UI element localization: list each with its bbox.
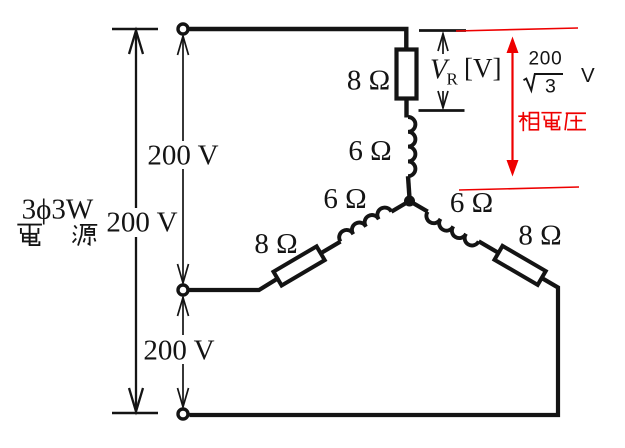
svg-text:200: 200 [528,49,562,70]
svg-text:R: R [447,70,459,89]
svg-text:200 V: 200 V [147,140,218,172]
svg-text:6 Ω: 6 Ω [323,183,366,215]
svg-text:8 Ω: 8 Ω [518,220,561,252]
svg-text:V: V [581,64,595,87]
svg-text:[V]: [V] [464,53,501,83]
svg-text:6 Ω: 6 Ω [348,135,391,167]
svg-text:6 Ω: 6 Ω [450,187,493,219]
svg-text:8 Ω: 8 Ω [347,65,390,97]
svg-text:3ϕ3W: 3ϕ3W [22,194,94,226]
svg-text:200 V: 200 V [106,207,177,239]
svg-text:200 V: 200 V [143,335,214,367]
svg-text:3: 3 [545,76,556,98]
svg-text:8 Ω: 8 Ω [254,228,297,260]
